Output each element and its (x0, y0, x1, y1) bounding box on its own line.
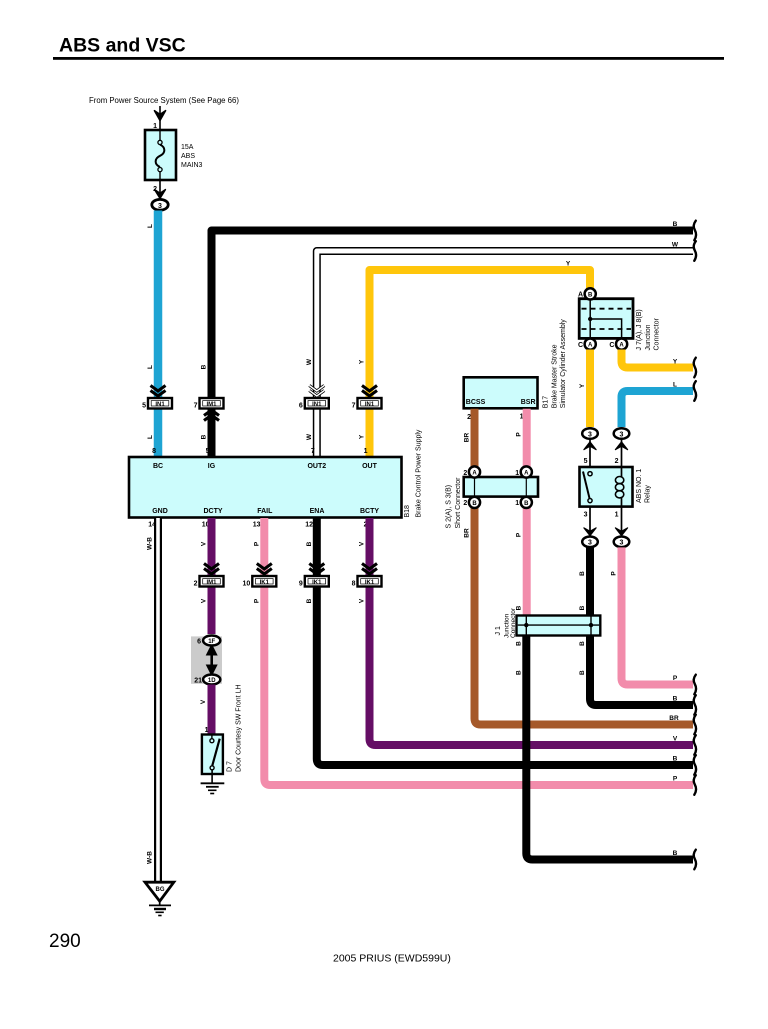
svg-text:J 7(A), J 8(B): J 7(A), J 8(B) (636, 309, 643, 350)
svg-text:Brake Control Power Supply: Brake Control Power Supply (416, 429, 423, 517)
svg-text:2: 2 (615, 458, 619, 465)
wire fuse feed top (159, 106, 161, 130)
svg-text:5: 5 (206, 448, 210, 455)
svg-text:B: B (201, 434, 208, 439)
svg-text:3: 3 (620, 431, 624, 438)
relay ABS NO.1 box (580, 467, 633, 507)
connector 6 IN1 (299, 386, 329, 410)
svg-text:A: A (578, 292, 583, 299)
svg-text:BG: BG (156, 887, 165, 893)
svg-text:290: 290 (49, 931, 81, 952)
wire B black IG horizontal+vertical (212, 231, 694, 458)
connector 8 IK1 (352, 564, 382, 588)
svg-text:Connector: Connector (654, 318, 661, 351)
svg-text:P: P (516, 432, 523, 437)
svg-text:B: B (673, 756, 678, 763)
svg-text:5: 5 (584, 458, 588, 465)
svg-text:Relay: Relay (645, 485, 652, 503)
wire relay pin3 down (589, 507, 591, 536)
svg-text:B: B (588, 293, 593, 299)
svg-text:3: 3 (620, 540, 624, 547)
svg-text:B: B (515, 641, 522, 646)
wire W-B GND outlined (154, 518, 162, 882)
svg-text:IM1: IM1 (206, 580, 217, 586)
svg-text:BC: BC (153, 463, 163, 470)
svg-text:From Power Source System (See: From Power Source System (See Page 66) (89, 96, 239, 105)
svg-text:Short Connector: Short Connector (455, 477, 462, 529)
wire relay pin5 (589, 440, 591, 468)
svg-text:6: 6 (299, 403, 303, 410)
svg-text:B: B (515, 670, 522, 675)
svg-text:2: 2 (463, 500, 467, 507)
node 3 relay top left (582, 428, 598, 439)
svg-text:DCTY: DCTY (203, 508, 222, 515)
svg-text:3: 3 (588, 540, 592, 547)
node 3 relay bottom right (614, 537, 630, 548)
short connector S2(A) S3(B) (463, 466, 538, 508)
svg-text:L: L (673, 382, 677, 389)
svg-text:MAIN3: MAIN3 (181, 162, 203, 169)
svg-text:B: B (306, 598, 313, 603)
svg-text:B: B (579, 641, 586, 646)
svg-text:3: 3 (588, 431, 592, 438)
connector 7 IM1 (194, 398, 224, 421)
svg-text:A: A (472, 471, 477, 477)
wire relay pin1 down (621, 507, 623, 536)
svg-text:A: A (588, 343, 593, 349)
svg-text:A: A (524, 471, 529, 477)
svg-text:V: V (359, 598, 366, 603)
svg-text:1: 1 (364, 448, 368, 455)
wire Y yellow junction to node 3 (586, 350, 594, 428)
svg-text:C: C (578, 342, 583, 349)
svg-text:Y: Y (566, 261, 571, 268)
svg-text:1: 1 (515, 470, 519, 477)
svg-text:ABS and VSC: ABS and VSC (59, 35, 186, 57)
svg-text:2: 2 (194, 581, 198, 588)
svg-text:W-B: W-B (147, 537, 154, 550)
svg-text:ABS NO. 1: ABS NO. 1 (636, 469, 643, 503)
svg-text:IN1: IN1 (312, 402, 322, 408)
junction block 1F/1D gray (191, 636, 222, 685)
svg-text:W: W (306, 358, 313, 365)
wire V BCTY purple (370, 518, 694, 745)
svg-text:7: 7 (311, 448, 315, 455)
fuse 15A ABS MAIN3 box (145, 130, 176, 180)
svg-text:3: 3 (158, 203, 162, 210)
svg-text:P: P (673, 776, 678, 783)
svg-text:9: 9 (299, 581, 303, 588)
svg-text:BR: BR (464, 528, 471, 538)
svg-text:W: W (672, 242, 679, 249)
svg-text:J 1: J 1 (495, 626, 502, 635)
title underline (53, 57, 724, 60)
ground at D7 (201, 783, 225, 793)
svg-text:V: V (673, 736, 678, 743)
svg-text:2: 2 (463, 470, 467, 477)
svg-text:B: B (579, 605, 586, 610)
wire B black J1 to bottom right edge (526, 636, 693, 860)
wire W white OUT2 outlined (317, 251, 693, 457)
svg-text:7: 7 (352, 403, 356, 410)
svg-text:BCSS: BCSS (466, 399, 486, 406)
wire P pink BSR (523, 409, 531, 616)
svg-text:BR: BR (669, 715, 679, 722)
svg-text:12: 12 (305, 522, 313, 529)
svg-text:IK1: IK1 (260, 580, 270, 586)
svg-text:V: V (359, 541, 366, 546)
svg-text:B: B (673, 221, 678, 228)
connector 10 IK1 (243, 564, 277, 588)
svg-text:10: 10 (243, 581, 251, 588)
wire P pink relay to right edge (622, 547, 694, 684)
switch D7 Door Courtesy SW Front LH (202, 735, 223, 784)
svg-text:B: B (306, 541, 313, 546)
svg-text:V: V (201, 598, 208, 603)
svg-text:1F: 1F (208, 639, 215, 645)
svg-text:6: 6 (197, 639, 201, 646)
junction connector J1 (517, 616, 601, 636)
connector 9 IK1 (299, 564, 329, 588)
svg-text:13: 13 (253, 522, 261, 529)
svg-text:L: L (147, 365, 154, 369)
connector 2 IM1 (194, 564, 224, 588)
svg-text:A: A (619, 343, 624, 349)
svg-text:IK1: IK1 (365, 580, 375, 586)
svg-text:P: P (516, 532, 523, 537)
svg-text:S 2(A), S 3(B): S 2(A), S 3(B) (446, 485, 453, 529)
svg-text:7: 7 (194, 403, 198, 410)
svg-text:Y: Y (359, 434, 366, 439)
svg-text:3: 3 (584, 512, 588, 519)
svg-text:Simulator Cylinder Assembly: Simulator Cylinder Assembly (560, 319, 567, 409)
junction connector J7 J8 box (578, 288, 633, 349)
svg-text:D 7: D 7 (227, 761, 234, 772)
svg-text:1: 1 (515, 500, 519, 507)
arrow solid down at fuse feed (154, 111, 165, 121)
continuation braces right edge (694, 221, 696, 870)
svg-text:B: B (201, 364, 208, 369)
svg-text:GND: GND (152, 508, 168, 515)
svg-text:Y: Y (579, 383, 586, 388)
svg-text:B: B (472, 501, 477, 507)
wire relay pin2 (621, 440, 623, 468)
ECU B18 Brake Control Power Supply box (129, 457, 402, 518)
svg-text:P: P (673, 675, 678, 682)
svg-text:ENA: ENA (310, 508, 325, 515)
node 3 relay bottom left (582, 537, 598, 548)
wire Y yellow junction to right edge (622, 350, 694, 368)
wire B ENA black (317, 518, 693, 765)
svg-text:IK1: IK1 (312, 580, 322, 586)
fuse element (156, 131, 165, 180)
svg-text:8: 8 (352, 581, 356, 588)
svg-text:1: 1 (615, 512, 619, 519)
svg-text:15A: 15A (181, 144, 194, 151)
svg-text:BCTY: BCTY (360, 508, 379, 515)
svg-text:OUT2: OUT2 (307, 463, 326, 470)
svg-text:Y: Y (359, 359, 366, 364)
svg-text:Brake Master Stroke: Brake Master Stroke (552, 344, 559, 408)
wire B black relay to right edge (590, 547, 693, 705)
arrow solid down above node 3 (155, 190, 166, 199)
wire BR brown BCSS (475, 409, 694, 725)
svg-text:8: 8 (152, 448, 156, 455)
wire P FAIL pink (264, 518, 693, 785)
svg-text:ABS: ABS (181, 153, 195, 160)
svg-text:IM1: IM1 (206, 402, 217, 408)
svg-text:Connector: Connector (510, 607, 517, 638)
ECU B17 Brake Master Stroke Simulator Cylinder Assembly (464, 377, 538, 408)
svg-text:1: 1 (205, 727, 209, 734)
svg-text:BR: BR (464, 433, 471, 443)
svg-text:V: V (201, 541, 208, 546)
svg-text:W: W (306, 433, 313, 440)
svg-text:BSR: BSR (521, 399, 536, 406)
wire V DCTY purple lower (208, 685, 216, 735)
connector 7 IN1 (352, 386, 382, 410)
svg-text:OUT: OUT (362, 463, 378, 470)
svg-text:B: B (579, 670, 586, 675)
svg-text:L: L (147, 435, 154, 439)
svg-text:L: L (147, 224, 154, 228)
svg-text:B17: B17 (543, 396, 550, 409)
svg-text:B: B (673, 696, 678, 703)
node 3 splice (152, 199, 168, 210)
svg-text:Door Courtesy SW Front LH: Door Courtesy SW Front LH (236, 684, 243, 772)
ground point BG triangle (145, 882, 174, 901)
svg-text:B: B (524, 501, 529, 507)
svg-text:B: B (579, 571, 586, 576)
svg-text:Junction: Junction (645, 324, 652, 350)
wire V DCTY purple upper (208, 518, 216, 634)
wire L blue BC vertical (154, 211, 163, 458)
ground symbol bottom (149, 905, 171, 915)
wire Y yellow OUT (370, 270, 591, 457)
svg-text:P: P (253, 541, 260, 546)
svg-text:21: 21 (194, 678, 202, 685)
wire L blue right edge to node 3 (622, 391, 694, 427)
svg-text:5: 5 (142, 403, 146, 410)
connector 5 IN1 (142, 386, 172, 410)
node 3 relay top right (614, 428, 630, 439)
svg-text:V: V (200, 699, 207, 704)
svg-text:W-B: W-B (147, 851, 154, 864)
svg-text:Y: Y (673, 359, 678, 366)
svg-text:IN1: IN1 (155, 402, 165, 408)
svg-text:B: B (673, 850, 678, 857)
svg-text:IG: IG (208, 463, 216, 470)
svg-text:P: P (611, 571, 618, 576)
svg-text:IN1: IN1 (365, 402, 375, 408)
wire Y yellow junction feed vertical (586, 270, 594, 289)
svg-text:FAIL: FAIL (257, 508, 273, 515)
svg-text:1D: 1D (208, 678, 216, 684)
svg-text:2: 2 (467, 414, 471, 421)
svg-text:C: C (609, 342, 614, 349)
svg-text:2005 PRIUS (EWD599U): 2005 PRIUS (EWD599U) (333, 953, 451, 965)
svg-text:B18: B18 (404, 505, 411, 518)
wire fuse to node 3 (159, 180, 161, 199)
svg-text:P: P (253, 598, 260, 603)
